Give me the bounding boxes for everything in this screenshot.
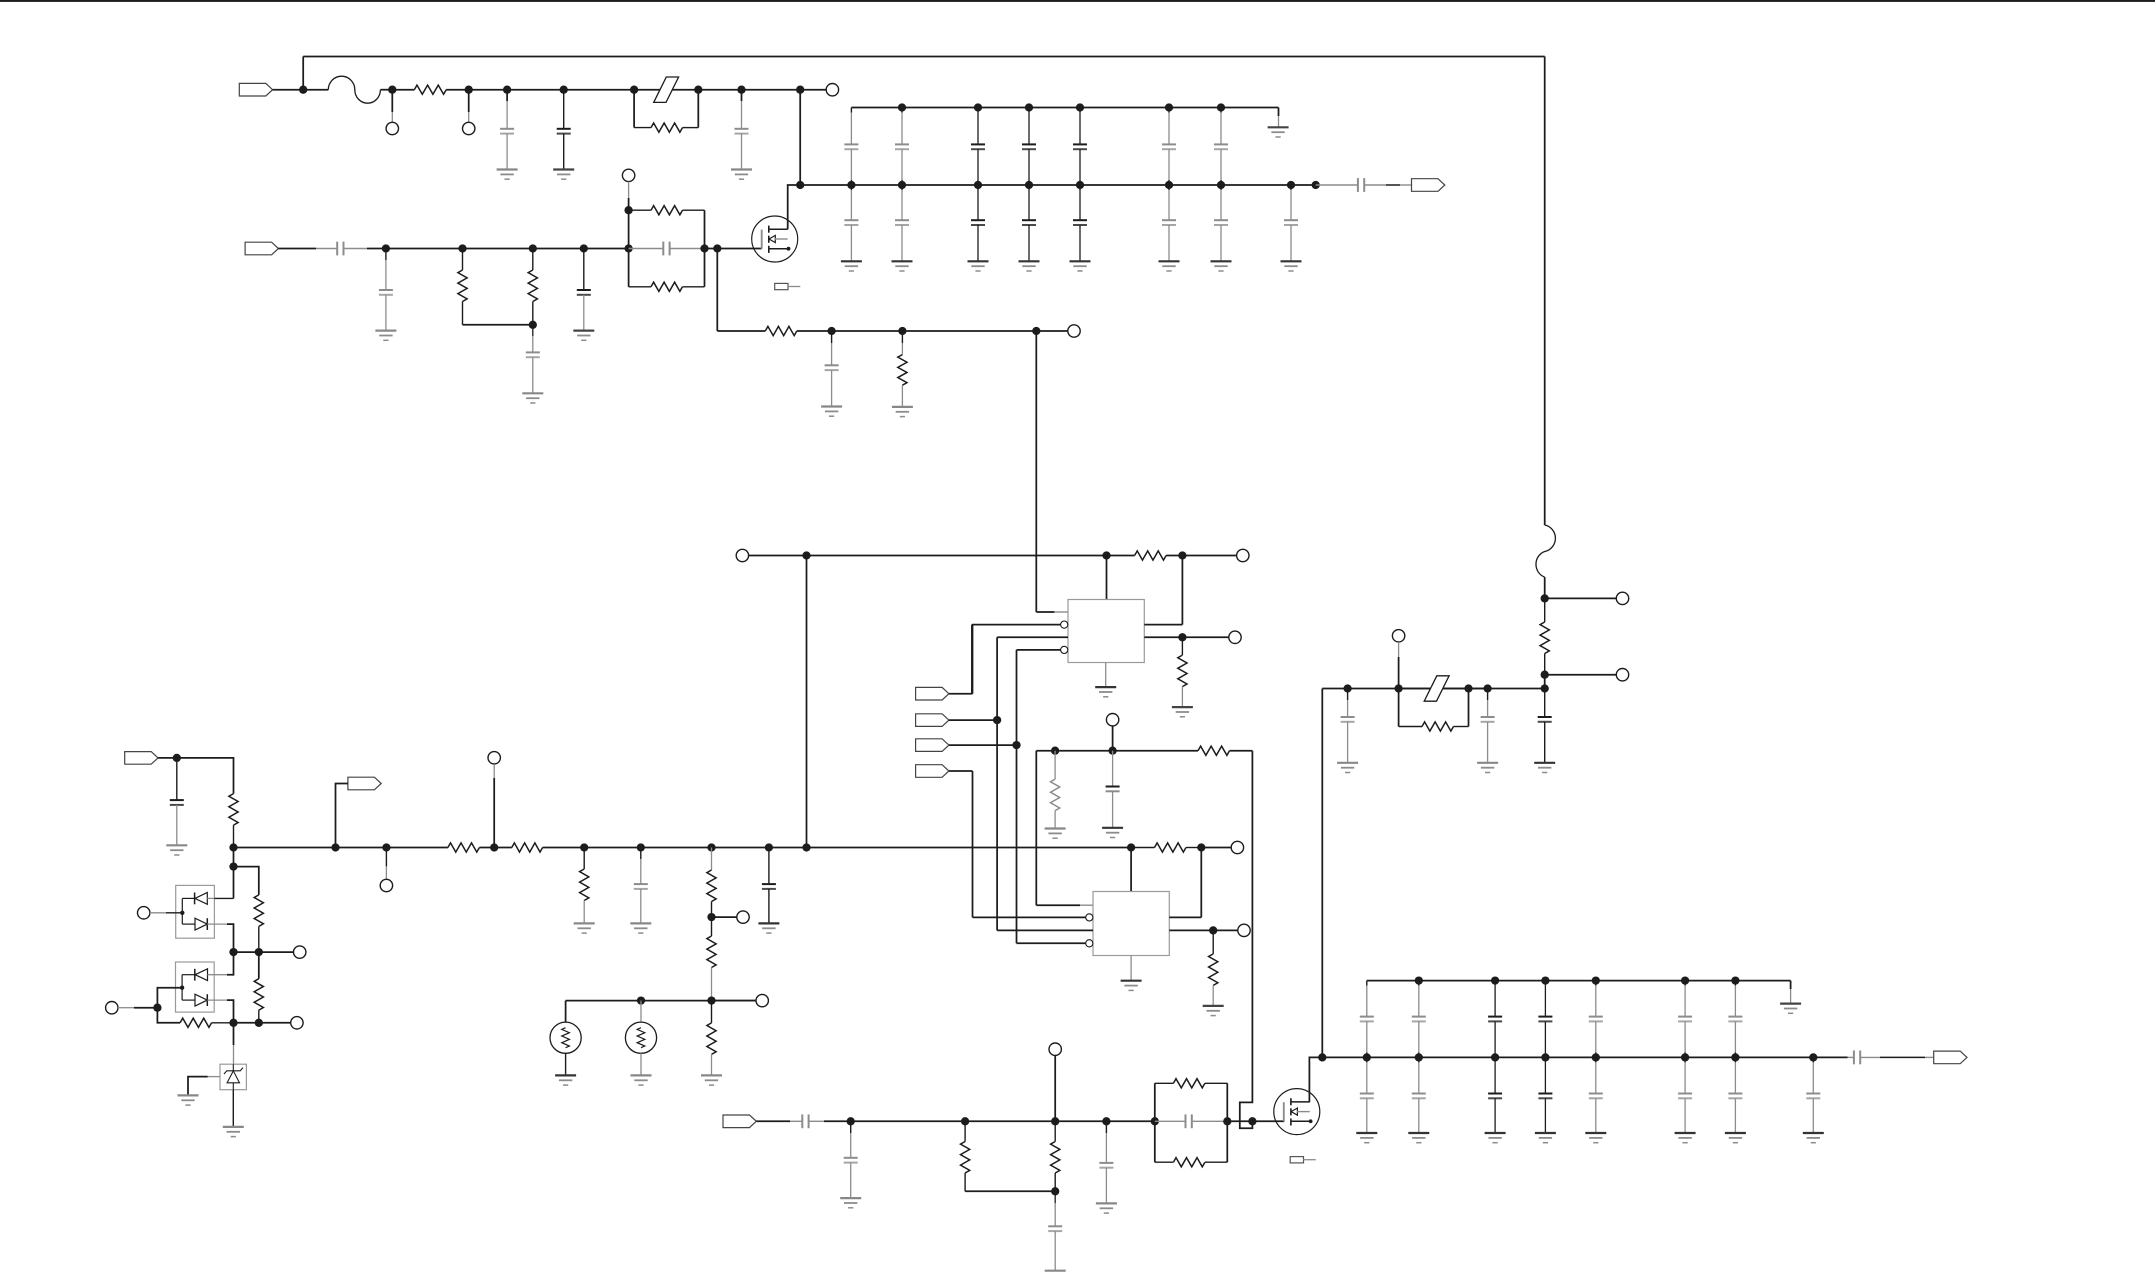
node E2 junction	[961, 1117, 969, 1125]
wire A4 to node A5	[507, 89, 564, 91]
node bank2 feed junction	[1318, 1053, 1326, 1061]
capacitor C22 (grey)	[1481, 689, 1495, 763]
node F6 junction	[1541, 594, 1549, 602]
terminal TP10	[380, 879, 392, 891]
capacitor C18 (grey)	[1099, 1121, 1113, 1203]
capacitor bank1 lower C27	[1214, 185, 1228, 261]
node bank2 mid col5	[1592, 1053, 1600, 1061]
resistor R14 (divider bottom)	[707, 917, 716, 1001]
wire riser C1 down to row G	[806, 556, 808, 848]
capacitor C23	[1538, 689, 1552, 763]
node L4 junction	[153, 1004, 161, 1012]
U1 pin2 bubble	[1061, 621, 1068, 628]
ground for C10	[821, 407, 842, 417]
wire E1 to node E2	[851, 1120, 965, 1122]
terminal TP19	[1049, 1043, 1061, 1055]
wire T2 riser	[640, 1001, 642, 1023]
wire F7 down to row F	[1544, 675, 1546, 689]
node B2 junction	[458, 244, 466, 252]
wire to series cap C20	[1848, 1056, 1854, 1058]
terminal TP20	[1392, 630, 1404, 642]
node H1 junction	[637, 996, 645, 1004]
node G8 junction	[765, 843, 773, 851]
capacitor C4 (series, grey)	[1358, 178, 1364, 192]
wire row H to terminal TP18	[712, 1000, 757, 1002]
ground for C11	[1102, 828, 1123, 838]
wire P6 to pin4 net	[949, 744, 1017, 746]
diode D1b (lower, cathode right)	[195, 918, 234, 952]
wire L5-L6 to terminal TP17	[234, 1022, 291, 1024]
resistor R20 (shunt)	[961, 1121, 970, 1191]
fuse F2 (S-curve vertical)	[1536, 525, 1555, 577]
wire B1 to node B2	[386, 248, 463, 250]
terminal TP1	[386, 122, 398, 134]
resistor R1	[414, 85, 446, 94]
resistor R3 (shunt)	[458, 249, 467, 325]
ground for C16	[840, 1198, 861, 1208]
node bank2 top col6	[1681, 976, 1689, 984]
capacitor C5 (series, grey)	[337, 242, 343, 256]
wire long riser down to Q2 gate net	[1240, 751, 1253, 1129]
node L6 junction	[255, 1019, 263, 1027]
ground for C8	[573, 331, 594, 341]
terminal TP3	[826, 84, 838, 96]
node A9 junction	[796, 86, 804, 94]
zener Z1 symbol	[224, 1064, 243, 1090]
node E8 junction	[1248, 1117, 1256, 1125]
terminal TP8	[1229, 631, 1241, 643]
wire F3 to F4	[1469, 688, 1488, 690]
wire bank1 mid rail	[800, 184, 1315, 186]
node bank1 mid col2	[898, 181, 906, 189]
node G6 junction	[707, 843, 715, 851]
node G5 junction	[637, 843, 645, 851]
node A4 junction	[503, 86, 511, 94]
wire R8 to node C3	[1166, 555, 1182, 557]
node E4 junction	[1051, 1187, 1059, 1195]
wire L5 down to zener Z1	[233, 1023, 235, 1064]
wire stub node A3 down	[468, 90, 470, 123]
wire L1 to resistor R17 bracket	[234, 867, 259, 895]
node bank1 top col4	[1025, 103, 1033, 111]
wire G1 to resistor R12	[177, 758, 234, 794]
wire R20 bottom to node E4	[965, 1190, 1055, 1192]
capacitor bank1 upper C15	[1073, 108, 1087, 186]
node F5 junction	[1541, 684, 1549, 692]
ground bank1 top-rail end	[1268, 127, 1289, 137]
wire L4 to resistor R18	[157, 1008, 180, 1023]
wire C15 to node E1	[809, 1120, 851, 1122]
capacitor C9 (series in RC block, grey)	[629, 242, 705, 256]
wire row G rail seg1	[234, 847, 448, 849]
ground bank2 col5	[1585, 1133, 1606, 1143]
off-page connector P9	[348, 777, 381, 790]
wire E5 to node E6	[1106, 1120, 1154, 1122]
wire T1 riser	[565, 1001, 567, 1023]
capacitor C17 (grey)	[1048, 1191, 1062, 1270]
node bank1 mid col8	[1287, 181, 1295, 189]
node bank2 mid col3	[1491, 1053, 1499, 1061]
wire right bracket RC block Q2	[1226, 1083, 1228, 1162]
node C4 junction	[1178, 633, 1186, 641]
node A3 junction	[465, 86, 473, 94]
terminal TP18	[756, 994, 768, 1006]
node L1 junction	[229, 862, 237, 870]
terminal TP12	[1231, 841, 1243, 853]
node A2 junction	[388, 86, 396, 94]
wire R1 to node A3	[446, 89, 469, 91]
node B6 junction	[529, 321, 537, 329]
wire E3 to node E5	[1055, 1120, 1106, 1122]
resistor R23 (bottom of RC block)	[1155, 1158, 1228, 1167]
wire TP19 to E3	[1054, 1055, 1056, 1121]
wire U2 pin8 (right)	[1169, 916, 1201, 918]
ground bank2 col4	[1535, 1133, 1556, 1143]
capacitor bank2 upper C31	[1360, 981, 1374, 1058]
wire row G rail seg3	[543, 847, 1132, 849]
wire B9 down to gate line	[716, 249, 718, 332]
resistor R2 (parallel with FB1)	[634, 123, 698, 132]
ground for Z1 anode	[178, 1095, 199, 1105]
ground bank2 col7	[1725, 1133, 1746, 1143]
diode pair D2 box	[176, 962, 215, 1012]
wire A2 to resistor R1	[392, 89, 414, 91]
capacitor bank2 upper C35	[1589, 981, 1603, 1058]
wire C20 to connector P11	[1860, 1056, 1934, 1058]
wire Z1 cathode down	[232, 1090, 234, 1127]
wire left bracket R24	[1398, 689, 1400, 727]
wire C3 down to U1 pin 8	[1181, 556, 1183, 625]
node G3 junction	[331, 843, 339, 851]
node bank1 mid at A9 riser	[796, 181, 804, 189]
terminal TP23	[488, 752, 500, 764]
terminal TP14	[138, 907, 150, 919]
resistor R25	[1540, 598, 1549, 674]
wire P10 to cap C15	[756, 1120, 802, 1122]
capacitor bank1 lower C23	[971, 185, 985, 261]
node bank2 top col7	[1731, 976, 1739, 984]
ground for C22	[1477, 763, 1498, 773]
off-page connector P10	[723, 1115, 756, 1128]
capacitor bank1 lower C24	[1022, 185, 1036, 261]
node bank1 top col5	[1076, 103, 1084, 111]
wire U2 pin3	[997, 929, 1093, 931]
wire U2 pin4	[1017, 942, 1086, 944]
node bank1 mid col4	[1025, 181, 1033, 189]
capacitor C6 (grey)	[379, 249, 393, 331]
resistor R5 (top of RC block)	[629, 206, 705, 215]
wire F6 to terminal TP21	[1545, 597, 1617, 599]
wire D2 common bar	[182, 975, 195, 1000]
wire Q2 drain to bank2 rail	[1309, 1057, 1322, 1102]
ground bank2 col3	[1485, 1133, 1506, 1143]
node A5 junction	[560, 86, 568, 94]
ground bank2 col1	[1356, 1133, 1377, 1143]
wire T1 to ground	[565, 1053, 567, 1075]
ground for R10	[1045, 829, 1066, 839]
wire top bus riser	[1544, 57, 1546, 526]
resistor R7	[765, 326, 796, 335]
ground for R16	[1203, 1006, 1224, 1016]
capacitor bank2 upper C33	[1488, 981, 1502, 1058]
capacitor bank1 upper C14	[1022, 108, 1036, 186]
node G9 junction (row C riser)	[802, 843, 810, 851]
wire G2 down to node L1	[233, 848, 235, 867]
node C2 junction	[1102, 551, 1110, 559]
capacitor C8	[577, 249, 591, 331]
node E1 junction	[847, 1117, 855, 1125]
node F3 junction	[1464, 684, 1472, 692]
wire B11 down to U1 pin 2	[1035, 331, 1037, 612]
wire C5 to node B1	[344, 248, 386, 250]
wire T2 to ground	[640, 1053, 642, 1075]
resistor R17	[254, 895, 263, 952]
wire P3 to cap C5	[278, 248, 337, 250]
ground for C23	[1534, 763, 1555, 773]
wire bank1 top rail	[851, 107, 1278, 109]
node bank1 top col3	[974, 103, 982, 111]
wire left bracket RC block Q2	[1154, 1083, 1156, 1162]
wire left bracket RC block Q1	[628, 210, 630, 287]
capacitor bank2 lower C47	[1728, 1057, 1742, 1133]
node E6 junction	[1151, 1117, 1159, 1125]
wire TP4 down to node B7	[628, 182, 630, 211]
ground for RT1	[555, 1075, 576, 1085]
wire right bracket RC block Q1	[704, 210, 706, 287]
wire TP14 to D1 common	[150, 911, 185, 915]
ground bank1 col1	[841, 261, 862, 271]
ground for R28	[574, 923, 595, 933]
wire F7 to terminal TP22	[1545, 674, 1617, 676]
node G4 junction	[382, 843, 390, 851]
node B10 junction	[827, 327, 835, 335]
wire A9 to terminal TP3	[800, 89, 826, 91]
node G12 junction	[490, 843, 498, 851]
wire mini rail	[1036, 750, 1198, 752]
wire right bracket of R2 parallel	[697, 90, 699, 128]
diode D2b (lower, cathode right)	[195, 994, 234, 1023]
node G1 junction	[173, 754, 181, 762]
wire G4 stub to terminal	[385, 848, 387, 880]
IC U2 body	[1093, 892, 1169, 956]
node on pin3 net	[993, 716, 1001, 724]
node G7 junction	[707, 913, 715, 921]
capacitor C2	[557, 90, 571, 170]
ground bank2 col8	[1803, 1133, 1824, 1143]
node bank1 mid col6	[1165, 181, 1173, 189]
capacitor bank1 lower C22	[895, 185, 909, 261]
U1 pin4 bubble	[1061, 646, 1068, 653]
node bank2 mid col1	[1363, 1053, 1371, 1061]
ferrite bead FB1	[654, 77, 679, 102]
capacitor C15 (series, grey)	[802, 1114, 808, 1128]
wire U1 pin3 net	[997, 637, 1068, 930]
wire B3 to node B4	[533, 248, 584, 250]
capacitor C19 (series in RC block, grey)	[1155, 1114, 1228, 1128]
capacitor C11	[1106, 751, 1120, 828]
node bank2 top col4	[1541, 976, 1549, 984]
wire A6 to node A7 (under ferrite)	[634, 89, 698, 91]
resistor R12	[229, 794, 238, 848]
thermistor RT2	[625, 1022, 656, 1053]
transistor Q1 (N-MOSFET)	[752, 216, 798, 262]
resistor R27 (series in rail)	[512, 843, 543, 852]
off-page connector P1 (top-left input)	[239, 83, 272, 96]
terminal TP13	[1238, 924, 1250, 936]
capacitor bank1 lower C21	[844, 185, 858, 261]
wire G11 to terminal TP12	[1201, 847, 1231, 849]
node D1 junction	[1209, 926, 1217, 934]
ground for C21	[1337, 763, 1358, 773]
wire row H rail	[566, 1000, 756, 1002]
terminal TP5	[1068, 325, 1080, 337]
wire riser A9 down to VOUT rail	[799, 90, 801, 185]
ground bank1 col7	[1211, 261, 1232, 271]
capacitor bank2 lower C46	[1678, 1057, 1692, 1133]
ground for C13	[630, 923, 651, 933]
resistor R16 (U2 pin7 pulldown)	[1209, 930, 1218, 1006]
resistor R4 (shunt)	[528, 249, 537, 325]
wire B2 to node B3	[463, 248, 533, 250]
capacitor bank2 upper C37	[1728, 981, 1742, 1058]
capacitor C20 (series, grey)	[1854, 1051, 1860, 1065]
node M1 junction	[1051, 747, 1059, 755]
wire B10 to node B12	[832, 330, 903, 332]
wire U2 pin7 to node D1	[1169, 929, 1213, 931]
wire right bracket R24	[1468, 689, 1470, 727]
capacitor bank1 upper C12	[895, 108, 909, 186]
node L3 junction	[255, 948, 263, 956]
terminal TP4	[622, 169, 634, 181]
capacitor bank2 lower C45	[1589, 1057, 1603, 1133]
wire TP6 to node C1	[749, 555, 807, 557]
ground for C17 (clipped at bottom)	[1045, 1271, 1066, 1273]
wire R11 to long riser	[1230, 750, 1253, 752]
wire TP9 to M2	[1112, 726, 1114, 751]
wire C2 down to U1 top pin	[1106, 556, 1108, 600]
ground bank2 top-rail end	[1780, 1004, 1801, 1014]
node F1 junction	[1343, 684, 1351, 692]
capacitor bank2 lower C41	[1360, 1057, 1374, 1133]
ground for U1	[1095, 687, 1116, 697]
terminal TP6	[736, 549, 748, 561]
node F2 junction	[1394, 684, 1402, 692]
ground for C1	[497, 170, 518, 180]
wire P4 to U1 pin2 net	[949, 625, 973, 694]
ground bank1 col5	[1070, 261, 1091, 271]
ground bank1 col8	[1281, 261, 1302, 271]
wire to series cap C4	[1316, 184, 1358, 186]
capacitor bank1 upper C17	[1214, 108, 1228, 186]
wire B8 to node B9	[705, 248, 718, 250]
ground for RT2	[631, 1075, 652, 1085]
wire B12 to node B11	[902, 330, 1036, 332]
capacitor C7 (grey)	[526, 325, 540, 394]
ground for C6	[375, 331, 396, 341]
capacitor bank1 upper C16	[1162, 108, 1176, 186]
wire left bracket of R2 parallel	[633, 90, 635, 128]
wire C1 to node C2 (long)	[807, 555, 1107, 557]
wire A5 to node A6	[564, 89, 634, 91]
terminal TP2	[463, 122, 475, 134]
resistor R24 (parallel with FB2)	[1399, 722, 1469, 731]
wire A8 to node A9	[742, 89, 801, 91]
wire U1 pin4 net	[1017, 650, 1061, 943]
capacitor C12	[170, 758, 184, 845]
wire U2 top pin riser	[1130, 848, 1132, 892]
ground for C18	[1096, 1203, 1117, 1213]
wire right-section riser (down to bank2)	[1321, 689, 1323, 1058]
ground for C7	[522, 393, 543, 403]
resistor R28 (shunt)	[580, 848, 589, 924]
node A8 junction	[737, 86, 745, 94]
node C1 junction	[802, 551, 810, 559]
ground bank1 col2	[892, 261, 913, 271]
terminal TP9	[1106, 714, 1118, 726]
wire U1 pin2 to conn A net	[972, 625, 1061, 694]
capacitor bank1 lower C26	[1162, 185, 1176, 261]
wire P1 to node A1	[273, 89, 304, 91]
node G10 junction (U2 top pin)	[1127, 843, 1135, 851]
node C3 junction	[1178, 551, 1186, 559]
capacitor bank1 lower C25	[1073, 185, 1087, 261]
U2 pin2 bubble	[1086, 914, 1093, 921]
wire B9 to Q1 gate	[717, 248, 761, 250]
wire P5 to pin3 net	[949, 719, 997, 721]
capacitor bank2 lower C43	[1488, 1057, 1502, 1133]
wire U1 pin1 to gate net	[1036, 611, 1068, 613]
wire C4 to connector P2	[1364, 184, 1411, 186]
ground below Z1	[223, 1127, 244, 1137]
capacitor bank2 upper C36	[1678, 981, 1692, 1058]
wire G7 to terminal TP11	[712, 916, 737, 918]
resistor R26 (series in rail)	[448, 843, 479, 852]
wire U1 pin8 (right top)	[1144, 624, 1182, 626]
node B4 junction	[580, 244, 588, 252]
wire U2 pin2	[973, 916, 1086, 918]
wire bank2 mid rail	[1322, 1056, 1847, 1058]
wire bank2 top rail	[1367, 980, 1791, 982]
node B7 junction	[624, 206, 632, 214]
node bank1 mid col3	[974, 181, 982, 189]
capacitor bank1 upper C11	[844, 108, 858, 186]
node B8 junction	[700, 244, 708, 252]
ground for C12	[166, 845, 187, 855]
wire stub node A2 down	[391, 90, 393, 123]
node bank1 mid col7	[1217, 181, 1225, 189]
node F7 junction	[1541, 671, 1549, 679]
wire C2 to resistor R8	[1107, 555, 1135, 557]
off-page connector P4	[916, 687, 949, 700]
ground bank2 col2	[1408, 1133, 1429, 1143]
node bank1 mid col1	[847, 181, 855, 189]
node bank1 top col2	[898, 103, 906, 111]
terminal TP22	[1616, 669, 1628, 681]
node bank2 top col2	[1415, 976, 1423, 984]
resistor R11 (mini series)	[1198, 746, 1229, 755]
wire P9 to node G3	[336, 784, 348, 848]
thermistor RT1	[550, 1022, 581, 1053]
capacitor C21 (grey)	[1341, 689, 1355, 763]
node A1 junction	[299, 86, 307, 94]
node B9 junction	[713, 244, 721, 252]
wire P7 to U2 pin2 net	[949, 771, 973, 917]
node bank1 mid col5	[1076, 181, 1084, 189]
off-page connector P2 (top-right output)	[1412, 179, 1445, 192]
node B11 junction	[1032, 327, 1040, 335]
wire U1 ground pin	[1105, 663, 1107, 688]
wire R3 bottom to node B6	[463, 324, 533, 326]
